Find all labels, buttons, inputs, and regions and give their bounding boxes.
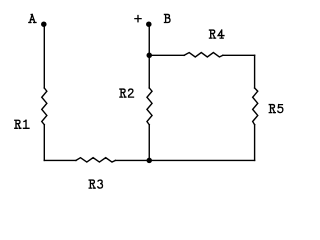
circuit schematic canvas bbox=[0, 0, 300, 203]
label R3 bbox=[89, 180, 102, 188]
wire: R1 bottom to bottom rail bbox=[43, 125, 45, 161]
wire: bottom rail right segment bbox=[115, 159, 254, 161]
resistor R3 bbox=[76, 158, 115, 162]
wire: top rail right segment bbox=[223, 54, 255, 56]
junction: B branch and R4 rail bbox=[147, 53, 153, 59]
wire: top rail left segment bbox=[149, 54, 184, 56]
node A terminal dot bbox=[41, 21, 47, 27]
resistor R5 bbox=[253, 88, 258, 125]
label R1 bbox=[15, 120, 29, 128]
label R4 bbox=[209, 30, 223, 38]
node B terminal dot bbox=[146, 21, 152, 27]
wire: top junction to R2 top bbox=[148, 55, 150, 88]
node B polarity sign bbox=[135, 16, 141, 22]
resistor R4 bbox=[184, 53, 223, 57]
wire: R5 bottom to bottom rail bbox=[254, 125, 256, 161]
junction: bottom rail and R2 branch bbox=[147, 158, 153, 164]
wire: bottom rail left segment bbox=[44, 159, 76, 161]
wire: node A to R1 top bbox=[43, 24, 45, 88]
label R2 bbox=[120, 89, 134, 97]
node B label bbox=[164, 14, 170, 22]
wire: top right corner to R5 top bbox=[254, 55, 256, 88]
resistor R1 bbox=[42, 88, 47, 125]
label R5 bbox=[269, 105, 283, 113]
resistor R2 bbox=[147, 88, 152, 125]
node A label bbox=[29, 14, 36, 22]
wire: R2 bottom to bottom junction bbox=[148, 125, 150, 161]
wire: node B to top junction bbox=[148, 24, 150, 55]
